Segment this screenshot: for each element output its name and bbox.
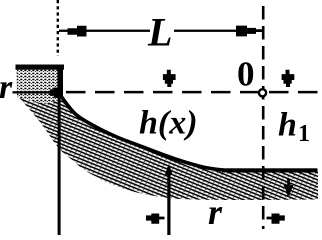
svg-text:r: r [208, 192, 223, 232]
bearing pad body (stippled solid) [17, 65, 319, 201]
up arrowhead on extension line [165, 165, 173, 176]
pad leading (right) edge [58, 65, 64, 99]
svg-text:r: r [0, 69, 13, 106]
svg-text:L: L [147, 10, 172, 55]
pad block dotted texture [17, 69, 63, 104]
left dotted extension line [57, 0, 59, 56]
surface curve h(x) [61, 96, 226, 170]
h1 down arrow inside pad [287, 179, 290, 196]
svg-text:h(x): h(x) [139, 105, 198, 142]
horizontal dashed reference line [66, 91, 322, 94]
L right arrowhead [236, 26, 263, 37]
svg-text:1: 1 [298, 121, 310, 147]
dimension line L (right segment) [174, 30, 236, 32]
origin marker circle [259, 89, 266, 96]
down arrow above h1 [282, 70, 295, 87]
r dimension left arrow [146, 214, 165, 224]
flat surface line [222, 168, 318, 172]
extension line at curve end [167, 167, 170, 235]
L left arrowhead [68, 26, 87, 37]
svg-text:h: h [278, 107, 297, 144]
leader arrowhead [50, 88, 63, 98]
dimension line L (left segment) [59, 30, 150, 32]
left solid vertical line [58, 95, 61, 235]
leader line from r [13, 91, 51, 93]
svg-text:0: 0 [237, 55, 255, 94]
r dimension right arrow [267, 214, 285, 224]
pad top edge [16, 65, 65, 70]
down arrow above h(x) [163, 70, 176, 87]
right dashed extension line [262, 6, 265, 229]
